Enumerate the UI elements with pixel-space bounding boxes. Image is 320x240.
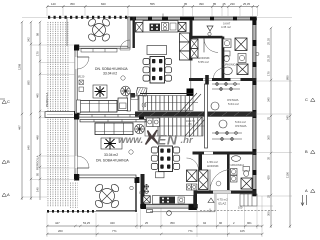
door arc lower-left living xyxy=(77,156,89,168)
door arc hall to bath xyxy=(213,68,224,79)
svg-text:230: 230 xyxy=(230,2,235,6)
svg-text:840: 840 xyxy=(101,2,106,6)
lower dining table xyxy=(151,146,179,178)
upper coffee table with plant xyxy=(93,85,107,98)
wall hall/bath vertical xyxy=(222,37,225,81)
svg-text:390: 390 xyxy=(199,2,204,6)
svg-text:342: 342 xyxy=(27,37,31,42)
svg-text:DN. SOBA+KUHINJA: DN. SOBA+KUHINJA xyxy=(96,158,129,162)
svg-text:B: B xyxy=(305,149,308,154)
ostava lower pipe manifold xyxy=(212,131,242,141)
wall hall2/bath2 vertical xyxy=(227,154,230,190)
pergola dotted paving strip left xyxy=(47,21,69,207)
small door mark below wall xyxy=(147,210,153,213)
lower apt kitchen wall boxes xyxy=(147,118,160,127)
upper terrace round table xyxy=(87,18,111,43)
right dimension lines xyxy=(270,27,291,228)
top extension lines xyxy=(47,7,258,16)
svg-text:B: B xyxy=(7,159,10,164)
svg-text:365: 365 xyxy=(267,135,271,140)
corridor duct wall xyxy=(127,93,135,111)
wardrobe hatched block xyxy=(136,88,147,97)
stairs top rail wall xyxy=(140,93,193,95)
svg-text:420: 420 xyxy=(267,175,271,180)
svg-text:771: 771 xyxy=(112,229,117,233)
section marker A left xyxy=(2,192,10,197)
svg-text:94: 94 xyxy=(203,221,207,225)
left exterior wall upper (window wall) xyxy=(74,45,79,181)
svg-text:340: 340 xyxy=(110,221,115,225)
top exterior wall xyxy=(128,14,257,21)
bath upper: toilet xyxy=(224,51,231,62)
wall below ostava lower xyxy=(193,152,257,155)
entrance arrow right bottom xyxy=(301,195,307,206)
lower kitchen small appliance squares xyxy=(187,184,197,190)
svg-text:300: 300 xyxy=(267,211,271,216)
entrance outer step xyxy=(150,194,215,212)
svg-text:555: 555 xyxy=(150,2,155,6)
svg-text:C: C xyxy=(7,99,10,104)
svg-text:260: 260 xyxy=(58,229,63,233)
IZLAZ label + triangle xyxy=(208,198,228,206)
section marker B left xyxy=(2,159,10,164)
kitchen tall cabinets (fridge) xyxy=(180,33,190,60)
svg-text:961: 961 xyxy=(247,221,252,225)
ostava upper label xyxy=(227,98,239,106)
left extension lines xyxy=(22,18,75,198)
svg-text:35: 35 xyxy=(267,156,271,160)
svg-text:33.04 m2: 33.04 m2 xyxy=(103,72,117,76)
bottom extension lines xyxy=(47,194,262,237)
svg-text:4.35 m2: 4.35 m2 xyxy=(221,25,231,29)
svg-text:25: 25 xyxy=(267,194,271,198)
svg-text:OSTAVA: OSTAVA xyxy=(235,124,247,128)
stairs upper flight xyxy=(138,93,201,113)
window sill bench upper living xyxy=(81,49,117,52)
section marker A right xyxy=(305,188,315,193)
svg-text:KUPAONICA: KUPAONICA xyxy=(229,163,244,167)
svg-text:447: 447 xyxy=(18,125,22,130)
svg-text:140: 140 xyxy=(36,187,40,192)
top dimension line xyxy=(46,5,259,8)
svg-text:345: 345 xyxy=(267,97,271,102)
upper sofa xyxy=(77,98,128,113)
svg-text:Ø120: Ø120 xyxy=(78,75,85,79)
svg-text:.hr: .hr xyxy=(181,135,194,146)
ostava lower label xyxy=(235,120,247,128)
svg-text:350: 350 xyxy=(70,2,75,6)
watermark www.xEN.hr xyxy=(118,130,194,148)
svg-text:448: 448 xyxy=(36,135,40,140)
pergola mid fence wall stub xyxy=(45,111,80,118)
bath lower: toilet xyxy=(243,167,250,177)
svg-text:/28: /28 xyxy=(188,123,192,126)
bath lower: shower X box xyxy=(241,178,252,189)
terrace bottom edge posts (lower terrace) xyxy=(47,210,137,213)
kitchen upper counter xyxy=(143,21,178,33)
svg-text:1100: 1100 xyxy=(286,172,290,178)
middle heavy wall xyxy=(135,112,256,117)
WC room label xyxy=(221,22,231,30)
entrance steps right xyxy=(240,194,257,206)
svg-text:0.KAT: 0.KAT xyxy=(223,22,231,26)
wall below hall/bath horizontal xyxy=(189,78,257,81)
vestibule door arc (IZLAZ) xyxy=(210,170,231,191)
svg-text:105: 105 xyxy=(240,229,245,233)
svg-text:545: 545 xyxy=(286,115,290,120)
top dimension numbers xyxy=(51,2,250,6)
svg-text:890: 890 xyxy=(286,75,290,80)
kitchen upper: left X column xyxy=(136,23,144,33)
pergola dotted paving lower terrace left part xyxy=(70,182,78,208)
svg-text:95: 95 xyxy=(36,172,40,176)
lower kitchen X cabinet tall right xyxy=(199,170,209,190)
bath upper: shower X box xyxy=(235,38,247,51)
bottom dim numbers row 2 xyxy=(58,229,245,233)
svg-text:5.64 m2: 5.64 m2 xyxy=(228,102,239,106)
svg-text:640: 640 xyxy=(27,145,31,150)
drain circle left of wall xyxy=(130,186,134,190)
svg-text:445: 445 xyxy=(36,93,40,98)
svg-text:25: 25 xyxy=(267,116,271,120)
section marker C left xyxy=(0,99,10,104)
small circle deco lower xyxy=(129,150,133,154)
section marker C right xyxy=(305,97,315,102)
svg-text:KUPAONICA: KUPAONICA xyxy=(222,63,237,67)
upper dining table xyxy=(143,57,172,84)
svg-text:96: 96 xyxy=(219,221,223,225)
upper terrace glass wall (south of terrace) xyxy=(79,46,128,48)
right exterior wall xyxy=(252,17,259,196)
ostava upper: pipe manifold xyxy=(212,82,240,91)
WC bottom wall xyxy=(193,36,223,39)
hall2 label xyxy=(207,160,219,168)
shaft X box on hall wall xyxy=(191,39,199,58)
wall terrace-kitchen vertical xyxy=(128,17,135,48)
kitchen island upper xyxy=(147,46,167,55)
svg-text:PERGOLA: PERGOLA xyxy=(36,155,40,170)
svg-text:A: A xyxy=(305,188,308,193)
svg-text:771: 771 xyxy=(188,229,193,233)
bottom dim numbers row 1 xyxy=(55,221,252,225)
corridor shelf band xyxy=(131,96,138,100)
lower room bottom window band xyxy=(79,175,136,178)
svg-text:C: C xyxy=(305,97,308,102)
left dimension numbers (rotated) xyxy=(18,32,40,192)
lower terrace round table xyxy=(94,183,120,209)
lower kitchen X cabinet mid xyxy=(187,170,198,182)
WC door arc xyxy=(204,38,218,52)
lower kitchen X cabinet left xyxy=(143,196,150,203)
svg-text:Ø150: Ø150 xyxy=(139,191,146,195)
svg-text:695: 695 xyxy=(27,80,31,85)
svg-text:HODNIK: HODNIK xyxy=(207,164,219,168)
door handle circle vestibule xyxy=(216,181,221,186)
drain circle below xyxy=(167,211,172,216)
lower coffee table with plant xyxy=(101,138,122,150)
svg-text:25,35: 25,35 xyxy=(267,38,271,45)
svg-text:PERGOLA: PERGOLA xyxy=(45,92,49,107)
ostava upper boiler circle xyxy=(211,102,219,110)
svg-text:140: 140 xyxy=(51,2,56,6)
svg-text:170: 170 xyxy=(36,51,40,56)
svg-text:95: 95 xyxy=(184,2,188,6)
door arc upper-left entrance to living xyxy=(77,57,89,69)
bottom right wall xyxy=(197,191,257,194)
bath upper: tub oval xyxy=(223,67,233,75)
middle strip: right wall xyxy=(194,191,198,208)
right extension lines xyxy=(256,18,292,207)
lower terrace right edge wall xyxy=(135,177,140,212)
bath lower: sink oval xyxy=(232,156,241,162)
lower round plant table xyxy=(135,124,145,134)
WC floor drain triangle xyxy=(207,26,213,36)
bottom dimension line 2 xyxy=(46,233,264,235)
upper round plant table xyxy=(121,86,131,96)
svg-text:A: A xyxy=(7,192,10,197)
svg-text:447: 447 xyxy=(55,221,60,225)
bath upper: sink xyxy=(223,39,231,48)
wall hall2 left vertical xyxy=(199,152,203,171)
door arc hall2 to living xyxy=(187,158,199,170)
svg-text:350: 350 xyxy=(170,221,175,225)
svg-text:25: 25 xyxy=(145,221,149,225)
svg-text:100: 100 xyxy=(238,206,243,210)
stairs lower flight xyxy=(145,117,207,137)
lower kitchen counter xyxy=(153,196,194,205)
middle strip: left wall xyxy=(141,174,145,208)
hall upper label xyxy=(198,56,210,64)
terrace top edge posts xyxy=(48,16,130,19)
kitchen upper: right X column xyxy=(178,23,186,32)
entrance dashed path xyxy=(200,210,276,212)
lower kitchen door symbols xyxy=(144,184,149,193)
svg-text:IZLAZ: IZLAZ xyxy=(218,202,226,206)
small circle deco upper xyxy=(121,76,125,80)
door arc terrace to living xyxy=(120,40,130,50)
svg-text:DN. SOBA+KUHINJA: DN. SOBA+KUHINJA xyxy=(95,67,128,71)
lower living room label xyxy=(96,153,129,162)
section marker B right xyxy=(305,149,315,154)
svg-text:170: 170 xyxy=(267,71,271,76)
right dimension numbers (rotated) xyxy=(267,38,290,216)
svg-text:98: 98 xyxy=(36,32,40,36)
svg-text:33.04 m2: 33.04 m2 xyxy=(104,153,118,157)
bath lower: washer boxes xyxy=(231,169,238,183)
svg-text:85: 85 xyxy=(213,2,217,6)
lower sofa xyxy=(95,123,133,135)
ostava lower boiler circle xyxy=(219,120,227,128)
bath upper: X column lower xyxy=(237,54,248,75)
upper living room label xyxy=(95,67,128,76)
wall kitchen/hall vertical xyxy=(187,20,194,96)
svg-text:1298: 1298 xyxy=(18,63,22,70)
bottom dimension line 1 xyxy=(46,225,264,227)
svg-text:5.55 m2: 5.55 m2 xyxy=(198,60,209,64)
stairwell right wall xyxy=(205,84,208,148)
svg-text:53,25: 53,25 xyxy=(83,221,90,225)
svg-text:www.: www. xyxy=(118,135,143,146)
terrace left edge line xyxy=(66,17,68,46)
lower room top window band xyxy=(80,120,146,122)
left dimension lines xyxy=(21,21,41,200)
upper room bottom window band xyxy=(79,114,144,120)
svg-text:25,35: 25,35 xyxy=(267,55,271,62)
middle strip: bottom wall xyxy=(141,205,198,209)
svg-text:25: 25 xyxy=(223,2,227,6)
svg-text:25,35: 25,35 xyxy=(243,2,250,6)
svg-text:EN: EN xyxy=(157,132,178,148)
plant pots at left wall upper xyxy=(79,80,84,92)
